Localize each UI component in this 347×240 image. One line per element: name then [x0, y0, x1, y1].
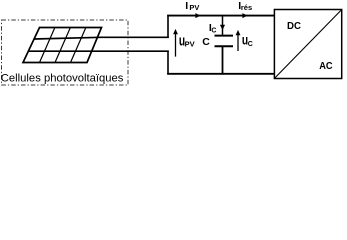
svg-text:AC: AC — [319, 61, 332, 72]
voltage arrow uC — [237, 33, 239, 52]
capacitor C1 bottom branch wire — [222, 47, 224, 75]
svg-text:PV: PV — [189, 3, 199, 12]
wire: riser down to bottom rail — [167, 51, 169, 75]
svg-text:Cellules photovoltaïques: Cellules photovoltaïques — [1, 72, 124, 84]
current arrow iC on capacitor branch — [220, 25, 225, 30]
converter U1 box DC/AC — [274, 10, 341, 79]
wire: riser up to top rail — [167, 15, 169, 38]
wire: top rail — [167, 15, 274, 17]
dashed enclosure box (PV module) — [2, 20, 129, 85]
svg-text:rés: rés — [241, 3, 252, 12]
current arrow IPV on top rail — [195, 13, 200, 18]
svg-text:C: C — [248, 41, 253, 48]
capacitor C1 top branch wire — [222, 16, 224, 35]
svg-text:C: C — [202, 36, 210, 48]
panel column line 1 — [40, 27, 56, 62]
converter diagonal — [275, 10, 342, 78]
svg-text:I: I — [185, 0, 188, 12]
capacitor C1 top plate — [215, 35, 234, 37]
panel column line 3 — [71, 27, 87, 62]
wire: panel row 1 / top lead to riser — [34, 37, 169, 39]
wire: panel row 2 / bottom lead to riser — [28, 50, 168, 52]
capacitor C1 bottom plate — [215, 45, 234, 47]
svg-text:DC: DC — [287, 21, 301, 32]
panel column line 2 — [55, 27, 71, 62]
solar panel PV array — [23, 27, 102, 62]
voltage arrow uPV — [175, 32, 177, 57]
current arrow Ires on top rail — [242, 13, 247, 18]
wire: bottom rail — [167, 73, 274, 75]
svg-text:C: C — [211, 28, 216, 35]
svg-text:PV: PV — [185, 40, 195, 49]
